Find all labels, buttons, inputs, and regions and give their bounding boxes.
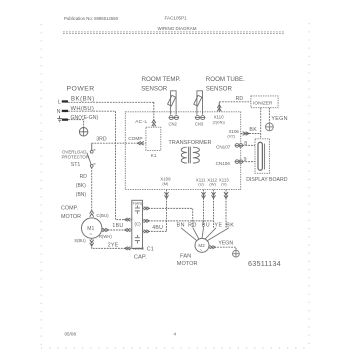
ionizer lead to ground xyxy=(268,108,270,123)
svg-text:2YE: 2YE xyxy=(108,242,119,248)
wire GN to ground xyxy=(68,120,84,128)
svg-text:Publication No: 5995514550: Publication No: 5995514550 xyxy=(64,16,119,21)
svg-text:~: ~ xyxy=(89,232,92,238)
svg-text:RD: RD xyxy=(80,174,88,180)
svg-text:SENSOR: SENSOR xyxy=(141,85,168,92)
terminal L pin xyxy=(62,100,68,102)
svg-text:BU: BU xyxy=(202,222,211,228)
connector CN2 xyxy=(169,116,180,120)
svg-text:BK(BN): BK(BN) xyxy=(71,97,95,103)
connector X112 wire xyxy=(213,190,215,228)
wire 9 to display board xyxy=(243,161,255,163)
room temp sensor RT1 xyxy=(168,91,177,115)
connector X109 chevrons xyxy=(165,192,169,198)
svg-text:(M): (M) xyxy=(162,181,169,186)
svg-text:S(BU): S(BU) xyxy=(74,238,86,243)
svg-text:R(WH): R(WH) xyxy=(99,234,112,239)
connector X110 wire xyxy=(218,102,220,112)
svg-text:63511134: 63511134 xyxy=(248,259,281,268)
pin COMP chevrons xyxy=(137,141,143,145)
svg-text:FAC105P1: FAC105P1 xyxy=(165,16,188,21)
svg-text:AC-L: AC-L xyxy=(135,119,147,125)
ground symbol power xyxy=(79,128,88,137)
svg-text:BK: BK xyxy=(249,127,257,133)
svg-text:CN107: CN107 xyxy=(216,144,231,149)
svg-text:ROOM TEMP.: ROOM TEMP. xyxy=(142,76,181,83)
svg-text:(V): (V) xyxy=(221,182,227,187)
svg-text:WIRING DIAGRAM: WIRING DIAGRAM xyxy=(158,26,197,31)
S terminal chevrons xyxy=(90,240,131,251)
connector CN106 xyxy=(235,160,244,164)
svg-text:4BU: 4BU xyxy=(152,225,163,231)
svg-text:3RD: 3RD xyxy=(96,136,107,142)
terminal GND pin xyxy=(62,119,68,121)
page border bottom xyxy=(41,347,309,349)
svg-text:RD: RD xyxy=(188,222,197,228)
wire N (WH) down to capacitor xyxy=(68,111,132,219)
svg-text:CN106: CN106 xyxy=(216,161,231,166)
terminal GND glyph xyxy=(57,116,61,122)
ionizer box xyxy=(251,96,278,108)
fan motor M2 xyxy=(195,238,209,252)
svg-text:MOTOR: MOTOR xyxy=(177,261,198,267)
svg-text:CN3: CN3 xyxy=(195,121,204,126)
svg-text:MOTOR: MOTOR xyxy=(61,214,81,220)
fan motor fan-out wires xyxy=(181,228,229,241)
page border left xyxy=(40,24,42,348)
svg-text:YE: YE xyxy=(214,222,222,228)
svg-text:YEGN: YEGN xyxy=(218,241,233,247)
cap C chevrons xyxy=(144,230,150,233)
svg-text:FAN: FAN xyxy=(180,254,191,260)
svg-text:SENSOR: SENSOR xyxy=(206,85,233,92)
page border right xyxy=(308,23,310,348)
overload protector switch ST1 xyxy=(87,150,96,167)
svg-text:BN: BN xyxy=(177,222,186,228)
ground symbol fan motor xyxy=(233,250,240,257)
connector X106 chevrons xyxy=(243,132,249,136)
svg-text:K1: K1 xyxy=(151,153,157,158)
cap C wire to X109 drop xyxy=(143,230,167,232)
header double rule xyxy=(63,32,285,34)
display board outline xyxy=(255,139,269,174)
connector X110 chevrons xyxy=(217,105,221,111)
connector X113 chevrons xyxy=(224,192,228,198)
wire BK X106 to display board xyxy=(241,133,261,135)
wire 3RD overload to COMP/K1 xyxy=(92,142,146,144)
svg-text:ROOM TUBE.: ROOM TUBE. xyxy=(206,76,245,83)
connector X113 wire xyxy=(225,190,227,228)
cap 4BU wire to X112 drop xyxy=(143,220,214,222)
svg-text:(2(GN)): (2(GN)) xyxy=(213,120,225,124)
R terminal chevrons xyxy=(102,228,130,232)
connector X109 wire xyxy=(166,190,168,232)
svg-text:POWER: POWER xyxy=(67,86,95,93)
cap symbol 2 xyxy=(135,235,140,244)
wire RD to ionizer xyxy=(219,101,251,103)
svg-text:WH(BU): WH(BU) xyxy=(71,106,95,112)
svg-text:ST1: ST1 xyxy=(71,162,81,168)
svg-text:L: L xyxy=(58,99,61,105)
comp motor R wire to cap xyxy=(102,229,132,231)
svg-text:RD: RD xyxy=(236,96,244,102)
svg-text:CAP.: CAP. xyxy=(134,255,147,261)
relay K1 box xyxy=(146,127,161,150)
svg-text:C1: C1 xyxy=(147,247,154,253)
wire AC-L drop xyxy=(153,102,155,127)
overload protector wire top xyxy=(91,143,93,150)
cap FAN chevrons xyxy=(144,207,150,210)
svg-text:C(BU): C(BU) xyxy=(96,213,109,218)
room tube sensor RT2 xyxy=(194,91,203,115)
fan motor YEGN ground wire xyxy=(209,247,236,250)
connector CN107 xyxy=(235,144,244,148)
svg-text:(BK): (BK) xyxy=(76,183,86,189)
ionizer lead to display board xyxy=(260,108,262,139)
cap FAN wire to fan area xyxy=(143,208,193,227)
wire 8 to display board xyxy=(243,144,255,146)
svg-text:HERM: HERM xyxy=(133,247,144,251)
comp motor C pin chevrons xyxy=(90,210,94,216)
terminal N pin xyxy=(62,110,68,112)
svg-text:(V2): (V2) xyxy=(227,134,235,139)
svg-text:F(AN): F(AN) xyxy=(133,202,143,206)
svg-text:8: 8 xyxy=(244,141,247,147)
run capacitor C1 box xyxy=(132,200,143,248)
connector X112 chevrons xyxy=(212,192,216,198)
svg-text:(U): (U) xyxy=(198,182,204,187)
svg-text:1BU: 1BU xyxy=(112,223,123,229)
cap 4BU chevrons xyxy=(144,219,150,222)
wire overload to comp motor xyxy=(91,167,93,210)
connector X111 chevrons xyxy=(202,192,206,198)
comp motor S wire to cap HERM xyxy=(92,238,132,248)
svg-text:COMP.: COMP. xyxy=(61,205,78,211)
comp motor M1 xyxy=(82,218,102,238)
svg-text:CN2: CN2 xyxy=(169,121,178,126)
svg-text:(C): (C) xyxy=(135,221,142,226)
display board connector bar xyxy=(258,142,262,170)
svg-text:X110: X110 xyxy=(214,115,224,120)
ground symbol ionizer xyxy=(266,123,274,131)
svg-text:PROTECTOR: PROTECTOR xyxy=(62,154,89,159)
transformer T1 symbol xyxy=(181,147,199,164)
svg-text:COMP: COMP xyxy=(128,136,142,142)
svg-text:4: 4 xyxy=(174,332,177,337)
connector CN3 xyxy=(195,116,206,120)
svg-text:BK: BK xyxy=(226,222,234,228)
svg-text:(BN): (BN) xyxy=(76,192,87,198)
svg-text:IONIZER: IONIZER xyxy=(253,101,273,107)
svg-text:YEGN: YEGN xyxy=(271,116,287,122)
svg-text:05/08: 05/08 xyxy=(65,332,77,337)
main control board outline xyxy=(125,112,240,190)
svg-text:GN(YE-GN): GN(YE-GN) xyxy=(71,115,99,121)
svg-text:9: 9 xyxy=(244,157,247,163)
connector X111 wire xyxy=(203,190,205,228)
wire N capacitor arrow xyxy=(125,218,131,221)
pin AC-L chevrons xyxy=(152,120,156,126)
svg-text:TRANSFORMER: TRANSFORMER xyxy=(168,140,211,146)
svg-text:N: N xyxy=(57,109,61,115)
cap symbol 1 xyxy=(135,205,140,214)
svg-text:DISPLAY BOARD: DISPLAY BOARD xyxy=(246,177,288,183)
svg-text:(W): (W) xyxy=(209,182,216,187)
wire L (BK) to AC-L xyxy=(68,101,154,103)
YEGN chevrons xyxy=(210,246,216,249)
